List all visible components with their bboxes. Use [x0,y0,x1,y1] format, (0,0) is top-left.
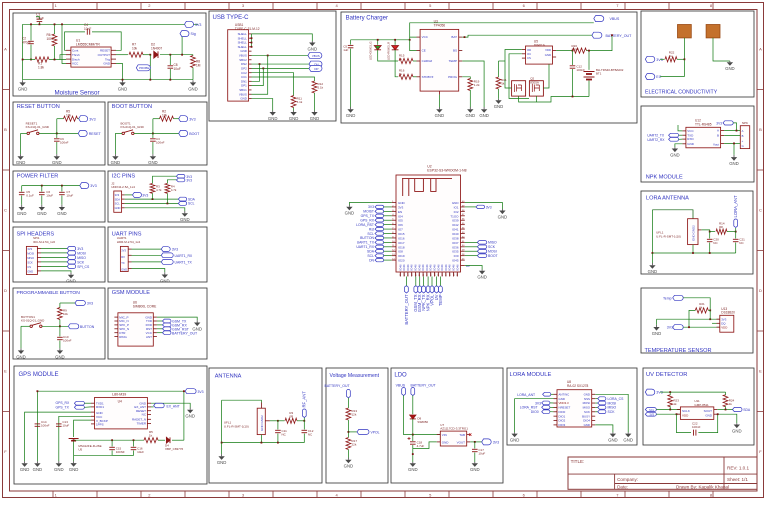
pin U2 left 2 [392,206,396,208]
diode D2 1N4007 [154,51,158,58]
net flag LORA_RST u2 [375,223,384,226]
junction dp [262,67,264,69]
pin U12 left 1 [682,130,686,132]
resistor R6 [52,34,57,46]
net flag MOSI [598,401,606,405]
svg-text:GND: GND [498,214,508,219]
net flag 3V3 reset [79,116,96,122]
svg-text:UART2_TXUART2_RX: UART2_TXUART2_RX [647,134,665,142]
wire bat out [462,35,592,37]
polarity + C18 [408,437,411,440]
net flag MOIST u2 [375,210,384,213]
junction ufl2 gnd [261,442,263,444]
wire Sig vertical [181,37,183,55]
wire U1 gnd [116,64,123,80]
wire gps gnd left [25,412,91,461]
svg-text:I2C PINS: I2C PINS [112,174,136,180]
pin numbers U2 left [392,201,395,261]
junction ledr [394,39,396,41]
ground ldo left [408,462,418,472]
pin U7 TAB [467,434,471,436]
junction vout [474,441,476,443]
net flag GPS_RX u2 [375,219,384,222]
wire lm MISO [595,406,598,408]
wire R12 gnd [314,93,316,111]
svg-text:3V3: 3V3 [368,205,374,209]
wire C5 bottom [350,49,352,107]
pin numbers U2 bottom [400,273,459,276]
wire ufl2 out [270,420,278,422]
pin U5 right [553,56,557,58]
wire R11 gnd [293,108,295,111]
net flag PROBE [136,65,150,71]
svg-text:UART1_TX: UART1_TX [175,261,193,265]
net flag UART1_TX [161,260,173,265]
pin USB1 3 [249,42,252,44]
pin USB1 1 [249,33,252,35]
pin U6 right 3 [153,324,157,326]
wire C16 top [133,440,135,446]
junction npk 3v3 [736,130,738,132]
junction uv right [725,409,727,411]
ground gsm [192,320,202,331]
net flag UART2_RX [669,137,679,141]
module box USB TYPE-C [209,11,336,121]
capacitor C15 [109,447,115,449]
wire vm top [347,398,349,408]
pin SPI1 2 [37,252,41,254]
net flag GSM_TX [163,319,171,323]
wire gsm GSM_RST [157,328,163,330]
wire C12 bottom [303,434,305,443]
net flag VPOL u2 bottom [429,286,434,306]
pin U8 left 1 [554,393,558,395]
junction batout right [611,34,613,36]
wire led rail [351,39,410,41]
net flag GPS_RX [74,401,84,405]
wire c18 top [412,435,414,441]
net flag 3V3 prog [75,301,86,306]
junction bt1 [588,50,590,52]
resistor R14 [716,229,727,234]
junction gps rail left [37,390,39,392]
pin U4 right 4 [147,414,151,416]
ground charger left [346,107,356,118]
net flag 3V3 u2 [375,205,384,208]
pin U2 right 11 [461,246,465,248]
wire vcc to led rail [409,37,411,40]
wire u3 gnd [438,95,440,107]
wire C5 bottom [21,196,23,205]
svg-text:GND: GND [188,86,198,91]
title block row line 1 [568,473,757,475]
ground usb R12 [310,111,320,121]
wire temp 3v3 row [657,318,720,320]
wire u2 MOIST [384,210,392,212]
net flag RESET [78,130,101,136]
junction shell [251,46,253,48]
ground reset left [16,154,26,165]
ground gps 2 [33,461,43,472]
net flag SPI_CS [67,264,90,269]
wire C11 bottom [277,434,279,443]
capacitor C12 [570,66,576,68]
wire u2 GPS_TX [384,215,392,217]
title block row line 2 [615,483,757,485]
svg-text:GND GND2: GND GND2 [692,225,696,241]
wire gps gnd right [151,403,190,407]
pin SPI1 5 [37,265,41,267]
svg-text:C: C [759,208,762,213]
net flag 3V3 uv [645,389,662,395]
junction R1 left [22,59,24,61]
svg-text:LORA ANTENNA: LORA ANTENNA [646,196,689,202]
wire SPI MOSI [41,252,68,254]
svg-text:R125.1k: R125.1k [318,82,324,90]
resistor R2 [160,116,174,121]
pin USB1 4 [249,46,252,48]
pin U6 left 6 [114,336,118,338]
wire C1 upper stub [36,17,39,20]
pin U2 left 11 [392,246,396,248]
junction uv left2 [676,413,678,415]
wire vm mid [347,420,349,438]
pin names U2 bottom [398,264,459,271]
wire SCL [125,202,179,204]
wire u2 GPS_RX [384,219,392,221]
pin U2 EPAD [461,265,465,267]
wire vout [470,441,482,443]
pin SPI1 4 [37,261,41,263]
wire C20 bottom [709,243,711,254]
capacitor C22 [694,430,696,436]
pin U5 right [553,50,557,52]
wire R21 bottom [498,89,500,99]
svg-text:GND: GND [66,279,76,284]
svg-text:SCK: SCK [488,245,496,249]
wire lm LORA_CS [595,398,598,400]
svg-text:PROGRAMMABLE BUTTON: PROGRAMMABLE BUTTON [17,290,81,296]
resistor R21 [496,77,501,89]
svg-text:MOSI: MOSI [77,252,86,256]
wire R8 top [192,54,194,57]
wire q2 to u5 gnd [543,64,549,88]
connector J2 body [114,191,122,212]
wire u2 bottom VPOL [431,277,433,287]
pin U3 left 2 [417,50,421,52]
pin USB1 12 [249,80,252,82]
ground ec [725,61,735,71]
wire vbus2 link [252,55,268,94]
svg-text:VBUS: VBUS [610,17,620,21]
pin USB1 16 [249,98,252,100]
pin U8 right 7 [592,420,596,422]
net flag MOSI u2 [477,249,487,253]
junction uv r19 [669,391,671,393]
junction lora c20 [709,231,711,233]
svg-text:R115.1k: R115.1k [297,97,303,105]
pin USB1 10 [249,72,252,74]
wire u5 oc [509,54,529,99]
module box NPK MODULE [641,106,754,182]
junction shell [251,42,253,44]
connector NPK body [740,126,749,149]
capacitor C8 [168,66,174,68]
connector U10 UFL body [688,219,698,245]
wire npk vcc [678,125,682,131]
net flag MISO [67,255,86,260]
IC U2 ESP32 body [396,175,461,272]
junction ec [684,58,686,60]
net flag 3V3 npk [723,121,733,125]
svg-text:R81M: R81M [196,60,201,68]
resistor R13 [346,408,351,420]
svg-text:Rst: Rst [369,227,374,231]
pin U8 left 3 [554,402,558,404]
net flag MOSI [67,251,86,256]
net flag GSM_TX u2 bottom [413,286,418,312]
svg-text:BATTERY_OUT: BATTERY_OUT [411,383,437,387]
junction c18 gnd [412,453,414,455]
pin U1 left 3 [66,58,71,60]
svg-text:LED-R0603_R: LED-R0603_R [387,42,391,60]
net flag GSM_RX [163,323,171,327]
connector SPI1 body [26,246,37,274]
title block column line left [614,474,616,489]
pin U13 [717,318,720,320]
pin USB1 14 [249,89,252,91]
wire u2 MISO [465,241,478,243]
net flag NPK_TX u2 bottom [421,286,426,311]
junction R6/rail [54,23,56,25]
junction gps 3v3 [183,390,185,392]
wire temp to R [683,298,710,311]
svg-text:GND GND2: GND GND2 [260,415,264,431]
svg-text:U4: U4 [118,400,122,404]
wire u2 SCL [384,255,392,257]
junction C6 [41,185,43,187]
svg-text:GND: GND [16,160,26,165]
net flag BATTERY_OUT charger [592,32,602,38]
pin U5 left [522,49,526,51]
wire u2 BUTTON [384,237,392,239]
pin U2 right 9 [461,237,465,239]
resistor R7 [129,52,143,57]
svg-text:D: D [759,288,762,293]
svg-text:3V3: 3V3 [87,302,93,306]
ground filter C7 [57,205,67,216]
svg-text:Battery Charger: Battery Charger [346,16,388,22]
pin U7 VIN [437,434,441,436]
svg-text:3V3: 3V3 [90,184,96,188]
wire scl to ic [656,409,680,411]
svg-text:GND: GND [344,464,354,469]
capacitor C13 [56,424,62,426]
resistor R8 [191,56,196,68]
wire btn right [39,132,78,134]
capacitor C5 [19,192,25,194]
pin U6 left 4 [114,328,118,330]
pin U3 right 3 [459,60,463,62]
frame row ticks right [757,90,764,412]
wire r left down [689,310,695,327]
svg-text:3V3: 3V3 [186,179,192,183]
wire temp 3v3 to ic [683,326,720,328]
wire c18 bottom [412,445,414,462]
wire lora bottom rail [652,210,735,253]
svg-text:GND: GND [729,161,739,166]
pin U2 left 13 [392,255,396,257]
svg-text:POWER FILTER: POWER FILTER [17,174,59,180]
wire ledr to R16 [395,50,398,77]
svg-text:BATTERY_OUT: BATTERY_OUT [606,34,633,38]
wire prog [462,77,470,79]
svg-text:LORA MODULE: LORA MODULE [510,372,552,378]
ground moisture left [18,80,28,91]
wire dq stub [712,322,717,324]
svg-text:ELECTRICAL CONDUCTIVITY: ELECTRICAL CONDUCTIVITY [645,90,718,96]
svg-text:GND: GND [57,211,67,216]
pin U6 right 6 [153,336,157,338]
capacitor C5 charger [348,45,354,47]
pin U3 bottom [438,91,440,95]
wire C2 to R1 [30,45,32,60]
wire R1 left [23,59,35,61]
net flag GPS_TX u2 [375,214,384,217]
svg-text:GND: GND [477,275,487,280]
pin USB1 2 [249,37,252,39]
svg-text:LED-G0603_G: LED-G0603_G [369,41,373,60]
resistor R22 [665,57,677,62]
wire C12 bottom [572,69,574,97]
svg-text:L80-M39: L80-M39 [112,393,126,397]
ground gps right [185,408,195,419]
pin U6 right 2 [153,320,157,322]
wire R24 bottom [725,406,727,409]
pin UFL right [698,229,701,231]
resistor R16 [399,74,413,79]
module box GSM MODULE [108,288,207,359]
net flag BOOT u2 [477,254,487,258]
wire 3v3 npk down [733,123,736,131]
wire ant gnd stem [221,443,223,455]
wire R2 left [153,118,160,120]
wire gsm gnd [157,317,197,320]
module box I2C PINS [108,171,207,222]
wire C20 top [709,232,711,239]
IC U8 SX1278 body [557,390,592,427]
svg-text:GND: GND [268,116,278,121]
pin numbers U2 right [462,201,465,261]
svg-text:D: D [4,288,7,293]
svg-text:NPK MODULE: NPK MODULE [646,174,683,180]
pin U12 left 3 [682,138,686,140]
wire R23 top [669,392,671,395]
pin U2 left 5 [392,219,396,221]
net flag 3V3 lm [542,401,550,405]
pin U2 left 3 [392,210,396,212]
wire ec [660,76,684,78]
wire R5 left [57,118,64,120]
svg-text:MISO: MISO [488,241,497,245]
wire dn1 link [252,64,260,81]
svg-text:GND: GND [16,354,26,359]
wire u2 bottom BATTERY_OUT [405,277,407,287]
pin U8 left 7 [554,420,558,422]
net flag UART2_TX [669,133,679,137]
wire R3 out [297,420,304,422]
ground filter C5 [17,205,27,216]
net flag LORA_CS [598,397,606,401]
svg-text:B: B [759,127,762,132]
ground usb [268,111,278,121]
wire reset vertical [56,119,58,138]
pin U2 left 1 [392,202,396,204]
IC U3 TP4056 body [420,29,459,91]
wire sout [717,409,732,411]
capacitor C17 [472,449,478,451]
pin U1 left 2 [66,54,71,56]
pin U2 left 6 [392,224,396,226]
pin U4 left 4 [91,415,95,417]
pin J2 3 [122,202,125,204]
wire cc2 to R11 [252,73,294,96]
wire C11 top [277,421,279,430]
svg-text:3V3: 3V3 [77,247,83,251]
pin UART1 4 [128,268,131,270]
net flag GSM_RST [163,327,171,331]
wire usb shell net [252,34,313,41]
pin U8 left 4 [554,406,558,408]
pin U13 [717,326,720,328]
wire shell bus [251,34,253,47]
svg-text:GND: GND [54,467,64,472]
svg-text:3V3: 3V3 [656,391,662,395]
frame column ticks top [53,3,713,10]
wire battery bottom [73,442,75,456]
junction reset node [56,133,58,135]
wire OUTPUT to R7 [116,54,128,56]
wire C6 top [41,186,43,192]
wire R15 to chrg [413,60,417,62]
wire left gnd boot [114,133,116,154]
svg-text:BATTERY_OUT: BATTERY_OUT [325,384,351,388]
net flag UART1_RX [161,253,173,258]
pin U4 left 5 [91,419,95,421]
wire R7 to D2 [143,54,150,56]
svg-text:DN: DN [369,258,374,262]
wire bt1 top [588,51,590,70]
svg-text:VDD: VDD [721,326,727,330]
IC U4 L80-M39 body [95,398,148,429]
ground esp epad [477,270,487,280]
wire ant top [222,400,262,402]
wire to R3ant [278,420,285,422]
junction C15 [111,439,113,441]
net flag UART1_RX u2 [375,245,384,248]
svg-text:Temp: Temp [663,297,672,301]
svg-text:GNDTXDRXDRSTVCCANT: GNDTXDRXDRSTVCCANT [145,315,153,339]
pin U11 right [714,413,718,415]
junction probe/gnd rail [149,79,151,81]
wire left gnd [20,133,22,154]
net flag VBUS ldo [402,387,406,395]
svg-text:GND: GND [55,354,65,359]
pin U3 right 4 [459,76,463,78]
ground moisture mid [118,80,128,91]
junction temp r right [709,310,711,312]
svg-text:3V3: 3V3 [493,441,499,445]
